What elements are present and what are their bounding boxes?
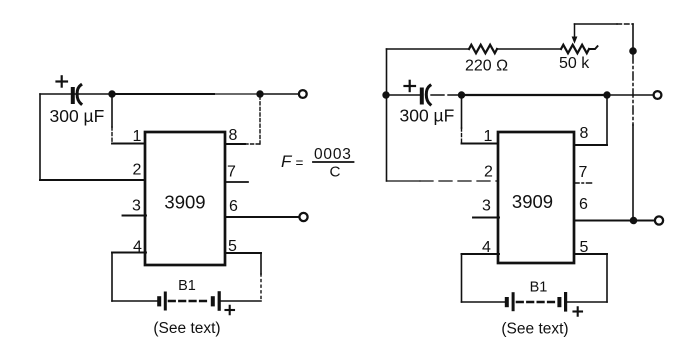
formula F = 0003 / C	[281, 146, 352, 181]
wire: pin 4 to battery minus (right)	[462, 254, 500, 302]
wire: pin 4 to battery minus (left)	[112, 253, 146, 302]
capacitor C2 300 uF (right circuit)	[420, 86, 430, 105]
node: main rail right junction	[603, 91, 610, 98]
wire: main rail (right circuit)	[387, 94, 654, 96]
wire: drop from junction C to pin 1	[462, 95, 500, 144]
op-amp / IC U2 3909 (right)	[498, 132, 574, 263]
battery B1 (right circuit)	[462, 292, 608, 312]
svg-text:C: C	[330, 164, 341, 181]
wire: pin 8 dashed riser to top rail (left)	[225, 98, 260, 144]
svg-text:F: F	[281, 152, 293, 171]
terminal: output top (right circuit)	[654, 91, 662, 99]
svg-text:50 k: 50 k	[559, 55, 590, 72]
svg-text:3: 3	[132, 198, 141, 215]
svg-text:(See text): (See text)	[153, 320, 220, 337]
pin 3 stub (right IC)	[473, 217, 499, 219]
wire: wiper to right riser	[575, 23, 634, 25]
capacitor C1 300 uF (left circuit)	[71, 85, 81, 104]
svg-text:4: 4	[133, 239, 142, 256]
svg-text:B1: B1	[530, 280, 548, 296]
polarity + of C1	[57, 76, 68, 86]
svg-text:8: 8	[580, 125, 589, 142]
polarity + of C2	[405, 81, 416, 91]
node: junction A (top rail / pin1 drop, left circuit)	[108, 90, 115, 97]
wire: pin 5 to battery plus (left)	[225, 253, 261, 301]
svg-text:300 µF: 300 µF	[50, 106, 105, 126]
fraction bar of formula	[313, 161, 354, 163]
svg-text:5: 5	[228, 238, 237, 255]
wire: pin 6 output line (left)	[225, 216, 299, 218]
battery polarity + (left)	[226, 306, 235, 314]
wire: right riser dash-dot segment	[632, 55, 634, 125]
wire: pin 2 feed (right circuit)	[387, 180, 500, 182]
battery B1 (left circuit)	[112, 291, 261, 311]
svg-text:1: 1	[133, 128, 142, 145]
wire: pin 2 feed (left circuit)	[40, 179, 146, 181]
svg-text:6: 6	[229, 198, 238, 215]
wire: between R1 and potentiometer	[497, 48, 561, 50]
pin 3 stub (left IC)	[123, 215, 147, 217]
node: junction B (top rail / pin 8 riser, left circuit)	[256, 90, 263, 97]
svg-text:6: 6	[579, 196, 588, 213]
wire: top rail with resistors (right circuit)	[387, 48, 470, 50]
svg-text:2: 2	[484, 164, 493, 181]
svg-text:7: 7	[579, 164, 588, 181]
potentiometer wiper arrow	[572, 24, 578, 44]
svg-text:5: 5	[580, 239, 589, 256]
wire: drop from node A to pin 1	[112, 94, 146, 144]
terminal: output pin 6 (right circuit)	[655, 216, 663, 224]
node: main rail left junction	[382, 91, 389, 98]
pin 7 stub (left IC)	[225, 181, 248, 183]
svg-text:0003: 0003	[314, 146, 352, 163]
wire: pin 5 to battery plus (right)	[574, 254, 607, 302]
svg-text:2: 2	[133, 162, 142, 179]
svg-text:B1: B1	[178, 278, 196, 294]
node: pin 6 / riser junction	[630, 217, 638, 225]
wire: right riser lower segment	[632, 125, 634, 221]
node: wiper junction	[629, 47, 637, 55]
svg-text:7: 7	[227, 164, 236, 181]
wire: left circuit left vertical	[39, 94, 41, 180]
svg-text:(See text): (See text)	[501, 321, 568, 338]
svg-text:4: 4	[482, 239, 491, 256]
potentiometer right lead (open)	[590, 46, 598, 49]
svg-text:1: 1	[484, 128, 493, 145]
wire: pin 8 riser to main rail (right)	[574, 98, 607, 145]
wire: pin 6 output line (right)	[574, 220, 655, 222]
pin 7 stub (right IC, dash-dot)	[574, 182, 592, 184]
svg-text:3909: 3909	[512, 191, 553, 212]
terminal: output pin 6 (left circuit)	[299, 213, 307, 221]
svg-text:300 µF: 300 µF	[400, 106, 455, 126]
node: junction C (main rail / pin1 drop, right circuit)	[458, 91, 465, 98]
battery polarity + (right)	[574, 307, 583, 315]
svg-text:=: =	[296, 156, 304, 171]
svg-text:3909: 3909	[164, 192, 205, 213]
resistor R1 220 ohm	[469, 45, 497, 53]
terminal: output top (left circuit)	[299, 90, 307, 98]
wire: left circuit top rail	[40, 93, 299, 95]
svg-text:3: 3	[482, 198, 491, 215]
svg-text:220 Ω: 220 Ω	[465, 58, 508, 75]
wire: right riser top segment	[632, 24, 634, 48]
potentiometer VR1 50 k	[561, 45, 589, 53]
svg-text:8: 8	[229, 127, 238, 144]
op-amp / IC U1 3909 (left)	[145, 132, 225, 265]
wire: right circuit left vertical	[386, 49, 388, 181]
